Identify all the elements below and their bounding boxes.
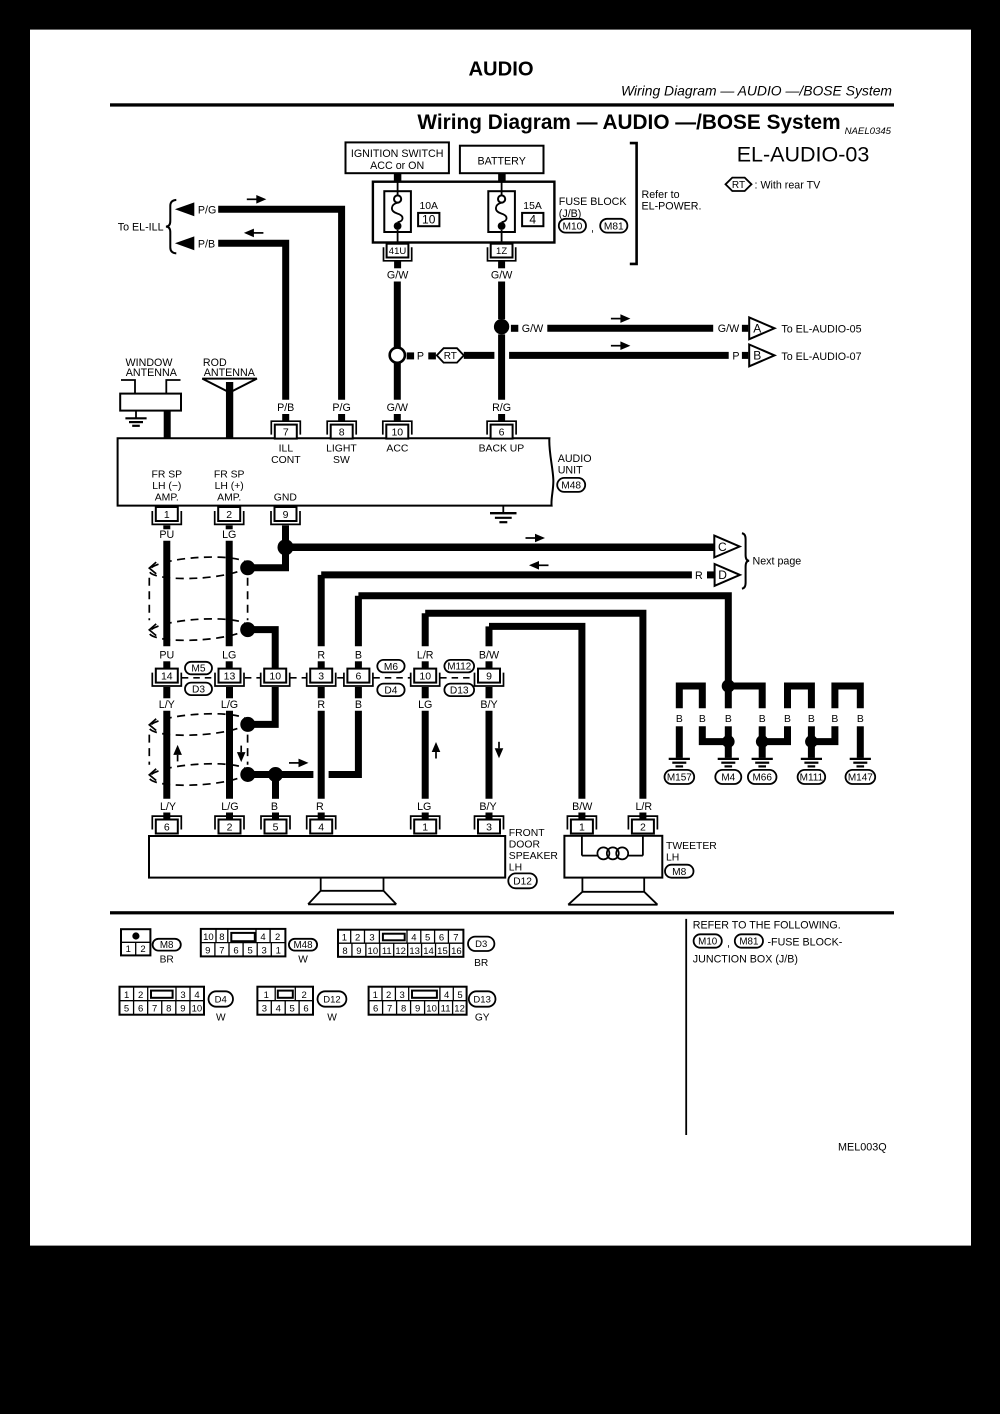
- svg-text:6: 6: [164, 821, 170, 833]
- svg-text:M81: M81: [604, 221, 624, 232]
- svg-text:3: 3: [180, 990, 185, 1001]
- svg-text:BATTERY: BATTERY: [478, 156, 526, 168]
- svg-text:8: 8: [342, 946, 347, 957]
- svg-text:2: 2: [227, 821, 233, 833]
- svg-text:NAEL0345: NAEL0345: [845, 126, 892, 137]
- shielded cable 1 top cap: [149, 554, 249, 581]
- label LG below terminal 2: [226, 525, 233, 529]
- wire B down to terminal 5: [272, 775, 279, 799]
- wire rod antenna to audio unit: [226, 382, 233, 439]
- tweeter horn symbol: [568, 878, 657, 905]
- ground bus top rail 3: [788, 686, 812, 708]
- svg-text:LG: LG: [222, 529, 236, 541]
- flow arrow on G/W branch: [611, 318, 622, 320]
- svg-text:JUNCTION BOX (J/B): JUNCTION BOX (J/B): [693, 954, 798, 966]
- svg-text:PU: PU: [159, 649, 174, 661]
- wire B to ground bus: [358, 596, 728, 686]
- connector M8 oval: [665, 865, 694, 878]
- wire shield 2 drain links: [252, 771, 276, 778]
- terminal 10 LG: [411, 669, 440, 686]
- svg-text:15A: 15A: [523, 201, 542, 212]
- shielded cable 2 top cap: [149, 711, 249, 738]
- svg-text:B: B: [753, 349, 761, 363]
- svg-text:D4: D4: [215, 994, 227, 1005]
- ground bus top rail 1: [679, 686, 702, 708]
- svg-text:BR: BR: [474, 958, 488, 969]
- svg-text:AMP.: AMP.: [217, 493, 241, 504]
- brace next page: [742, 533, 749, 588]
- svg-text:R: R: [317, 699, 325, 711]
- wire window antenna to audio unit: [164, 411, 171, 439]
- svg-text:GY: GY: [475, 1013, 490, 1024]
- svg-text:LH: LH: [666, 852, 679, 863]
- connector table D12: [257, 987, 313, 1015]
- ground symbol M4: [718, 758, 739, 760]
- connector M112 oval: [444, 660, 474, 673]
- ground bus dot main: [722, 679, 735, 692]
- svg-text:4: 4: [411, 933, 416, 944]
- junction dot C wire: [278, 539, 294, 555]
- svg-text:B: B: [784, 714, 791, 725]
- svg-text:Next page: Next page: [753, 556, 802, 568]
- wire L/G vertical: [226, 711, 233, 799]
- wire L/R to tweeter: [425, 613, 643, 799]
- ground bus top rail 2: [728, 686, 762, 708]
- connector D12 oval: [508, 873, 537, 888]
- svg-text:LIGHT: LIGHT: [326, 443, 357, 454]
- svg-text:12: 12: [395, 946, 406, 957]
- svg-text:D12: D12: [513, 877, 532, 888]
- wire P/B: [218, 243, 286, 399]
- ground connector ovals: [665, 770, 695, 784]
- connector M81 oval: [600, 219, 627, 233]
- svg-text:8: 8: [219, 932, 224, 943]
- svg-text:D4: D4: [384, 686, 397, 697]
- wire PU vertical: [163, 541, 170, 647]
- shield 2 drain dot top: [240, 717, 255, 732]
- svg-text:10: 10: [269, 671, 281, 683]
- svg-text:UNIT: UNIT: [558, 464, 583, 476]
- label R below 3: [318, 687, 325, 698]
- svg-text:GND: GND: [274, 493, 297, 504]
- svg-text:1: 1: [422, 821, 428, 833]
- svg-text:1: 1: [164, 509, 170, 521]
- wire ignition to fuse block: [394, 173, 402, 182]
- svg-text:G/W: G/W: [387, 402, 409, 414]
- svg-text:6: 6: [373, 1004, 378, 1015]
- speaker horn symbol: [308, 878, 396, 905]
- svg-text:B: B: [759, 714, 766, 725]
- svg-text:M48: M48: [561, 481, 581, 492]
- svg-text:4: 4: [194, 990, 199, 1001]
- svg-text:-FUSE BLOCK-: -FUSE BLOCK-: [768, 936, 843, 948]
- tweeter box: [564, 836, 662, 878]
- terminal 6 BACK UP: [487, 421, 516, 438]
- wire shield 1 to terminal 10: [252, 630, 276, 669]
- ground symbol M157: [669, 758, 690, 760]
- terminal 7 ILL CONT: [271, 421, 300, 438]
- tweeter terminal 2: [628, 816, 657, 833]
- svg-text:D3: D3: [192, 685, 205, 696]
- wire branch G/W to A: [511, 325, 518, 332]
- wire LG vertical: [226, 541, 233, 647]
- svg-text:1: 1: [579, 821, 585, 833]
- connector D3 table oval: [468, 937, 494, 951]
- wire B/Y vertical lower: [486, 711, 493, 799]
- junction dot G/W: [494, 319, 509, 334]
- wire G/W left vertical upper: [394, 282, 401, 348]
- terminal 9 GND: [271, 507, 300, 524]
- svg-text:R: R: [317, 649, 325, 661]
- svg-text:W: W: [327, 1013, 337, 1024]
- connector table M8: [121, 929, 150, 955]
- svg-text:W: W: [216, 1013, 226, 1024]
- shielded cable 2 side dashes: [148, 735, 150, 765]
- wire stub below 1Z: [498, 261, 505, 269]
- terminal 10 ACC: [383, 421, 412, 438]
- audio unit case ground: [502, 506, 504, 513]
- svg-text:6: 6: [233, 945, 238, 956]
- svg-text:EL-AUDIO-03: EL-AUDIO-03: [737, 143, 870, 167]
- svg-text:10: 10: [192, 1004, 203, 1015]
- svg-text:1: 1: [124, 990, 129, 1001]
- svg-text:M81: M81: [739, 937, 758, 948]
- svg-text:TWEETER: TWEETER: [666, 841, 717, 852]
- svg-text:P/G: P/G: [332, 402, 350, 414]
- svg-text:16: 16: [451, 946, 462, 957]
- svg-text:M6: M6: [384, 662, 398, 673]
- wire LG vertical lower: [422, 711, 429, 799]
- svg-text:R: R: [695, 570, 703, 582]
- svg-text:FR SP: FR SP: [214, 470, 245, 481]
- svg-text:ANTENNA: ANTENNA: [126, 367, 178, 379]
- svg-text:10: 10: [426, 1004, 437, 1015]
- connector table D4: [120, 987, 205, 1015]
- svg-text:3: 3: [399, 990, 404, 1001]
- svg-text:2: 2: [355, 933, 360, 944]
- svg-text:,: ,: [591, 223, 594, 235]
- wire D from next page: [321, 571, 692, 578]
- svg-text:G/W: G/W: [718, 323, 740, 335]
- svg-text:9: 9: [180, 1004, 185, 1015]
- wire L/Y vertical: [163, 711, 170, 799]
- terminal 1 FR SP LH minus: [152, 507, 181, 524]
- svg-text:Wiring Diagram — AUDIO —/BOSE: Wiring Diagram — AUDIO —/BOSE System: [417, 111, 840, 134]
- wire 10 to shield 2: [252, 687, 276, 724]
- svg-text:CONT: CONT: [271, 455, 301, 466]
- label L/G below 13: [226, 687, 233, 698]
- svg-text:A: A: [753, 322, 761, 336]
- window antenna symbol: [121, 380, 135, 394]
- refer M10 oval: [694, 934, 722, 947]
- fuse 15A: [488, 191, 515, 232]
- wire R/G vertical lower: [498, 334, 505, 399]
- svg-text:M5: M5: [191, 664, 205, 675]
- svg-text:4: 4: [444, 990, 449, 1001]
- rod antenna symbol: [202, 379, 257, 393]
- svg-text:B: B: [355, 649, 362, 661]
- svg-text:M112: M112: [447, 662, 471, 673]
- terminal 3 R: [307, 669, 336, 686]
- terminal 2 FR SP LH plus: [215, 507, 244, 524]
- wire P/G: [218, 209, 341, 399]
- svg-text:7: 7: [152, 1004, 157, 1015]
- speaker terminal 1: [411, 816, 440, 833]
- svg-text:11: 11: [382, 946, 392, 957]
- svg-text:5: 5: [457, 990, 462, 1001]
- tweeter terminal 1: [567, 816, 596, 833]
- svg-text:ILL: ILL: [279, 443, 294, 454]
- svg-text:3: 3: [262, 945, 267, 956]
- label LG below 10: [422, 687, 429, 698]
- svg-text:B: B: [725, 714, 732, 725]
- svg-text:2: 2: [302, 990, 307, 1001]
- flow arrow on P branch: [611, 345, 622, 347]
- wire G/W left vertical lower: [394, 363, 401, 400]
- wire R vertical lower: [318, 711, 325, 799]
- svg-text:M4: M4: [721, 773, 735, 784]
- wire branch P with RT: [407, 352, 414, 359]
- svg-text:REFER TO THE FOLLOWING.: REFER TO THE FOLLOWING.: [693, 919, 841, 931]
- wire B/W to tweeter: [489, 626, 582, 798]
- svg-text:: With rear TV: : With rear TV: [755, 179, 822, 191]
- window antenna ground: [135, 411, 137, 418]
- svg-text:LH (+): LH (+): [215, 481, 244, 492]
- flow arrow on D wire: [538, 564, 549, 566]
- svg-text:B: B: [699, 714, 706, 725]
- terminal 6 B: [344, 669, 373, 686]
- wire stub into ACC terminal: [394, 414, 401, 422]
- terminal 8 LIGHT SW: [327, 421, 356, 438]
- arrow to EL-ILL P/G: [175, 202, 194, 216]
- svg-text:D12: D12: [323, 994, 340, 1005]
- battery box: [460, 146, 544, 174]
- svg-text:M157: M157: [667, 773, 692, 784]
- svg-text:EL-POWER.: EL-POWER.: [642, 200, 702, 212]
- svg-text:B/W: B/W: [479, 649, 500, 661]
- connector table D3: [338, 930, 463, 957]
- svg-text:Refer to: Refer to: [642, 189, 680, 201]
- connector table M48: [201, 929, 286, 957]
- connector M48 oval: [557, 478, 585, 492]
- svg-text:FR SP: FR SP: [151, 470, 182, 481]
- svg-text:6: 6: [439, 933, 444, 944]
- svg-text:5: 5: [124, 1004, 129, 1015]
- svg-text:7: 7: [387, 1004, 392, 1015]
- shield 1 drain dot bottom: [240, 622, 255, 637]
- front door speaker box: [149, 836, 505, 878]
- flow arrow down L/G: [240, 746, 242, 753]
- svg-text:7: 7: [283, 427, 289, 439]
- ground bus top rail 4: [835, 686, 860, 708]
- flow arrow on C wire: [526, 537, 537, 539]
- wire B branch horizontal: [279, 771, 313, 778]
- svg-text:B: B: [831, 714, 838, 725]
- svg-text:B: B: [676, 714, 683, 725]
- svg-text:P: P: [417, 351, 424, 363]
- svg-text:5: 5: [247, 945, 252, 956]
- svg-text:3: 3: [318, 671, 324, 683]
- svg-text:8: 8: [166, 1004, 171, 1015]
- svg-text:L/G: L/G: [221, 699, 238, 711]
- svg-text:P/B: P/B: [277, 402, 294, 414]
- svg-text:B: B: [355, 699, 362, 711]
- svg-text:FRONT: FRONT: [509, 828, 545, 839]
- svg-text:9: 9: [486, 671, 492, 683]
- svg-text:LG: LG: [418, 699, 432, 711]
- wire battery to fuse block: [498, 173, 506, 182]
- page connector triangle C: [714, 536, 739, 558]
- svg-text:13: 13: [409, 946, 420, 957]
- svg-text:8: 8: [401, 1004, 406, 1015]
- svg-text:M147: M147: [848, 773, 873, 784]
- svg-text:B: B: [271, 801, 278, 813]
- svg-text:14: 14: [161, 671, 173, 683]
- speaker terminal 5: [261, 816, 290, 833]
- connector D4 oval: [377, 684, 404, 697]
- wire stub into ILL CONT terminal: [282, 414, 289, 422]
- ground symbol M66: [752, 758, 773, 760]
- svg-text:7: 7: [453, 933, 458, 944]
- svg-text:2: 2: [226, 509, 232, 521]
- speaker terminal 4: [307, 816, 336, 833]
- option connector open circle: [390, 348, 405, 363]
- svg-text:1: 1: [126, 944, 131, 955]
- flow arrow on P/B: [253, 232, 264, 234]
- svg-text:R/G: R/G: [492, 402, 511, 414]
- flow arrow up L/Y: [177, 755, 179, 762]
- wire stub into BACK UP terminal: [498, 414, 505, 422]
- svg-text:9: 9: [205, 945, 210, 956]
- svg-text:4: 4: [318, 821, 324, 833]
- svg-text:B: B: [857, 714, 864, 725]
- connector row dashes: [182, 677, 216, 679]
- connector D3 oval: [185, 683, 212, 696]
- speaker terminal 6: [152, 816, 181, 833]
- svg-text:FUSE BLOCK: FUSE BLOCK: [559, 196, 628, 208]
- svg-text:ACC or ON: ACC or ON: [370, 160, 424, 172]
- tweeter coil: [581, 836, 583, 856]
- page connector triangle B: [749, 345, 774, 367]
- connector D12 table oval: [318, 991, 347, 1006]
- svg-text:AMP.: AMP.: [155, 493, 179, 504]
- svg-text:Wiring Diagram — AUDIO —/BOSE: Wiring Diagram — AUDIO —/BOSE System: [621, 83, 892, 99]
- svg-text:2: 2: [275, 932, 280, 943]
- svg-text:4: 4: [260, 932, 265, 943]
- wire GND down to junction: [282, 525, 289, 547]
- svg-text:B/Y: B/Y: [479, 801, 496, 813]
- svg-text:ACC: ACC: [386, 443, 408, 454]
- svg-text:SW: SW: [333, 455, 350, 466]
- svg-text:PU: PU: [159, 529, 174, 541]
- svg-text:6: 6: [499, 427, 505, 439]
- svg-text:13: 13: [224, 671, 236, 683]
- svg-text:3: 3: [369, 933, 374, 944]
- svg-text:11: 11: [441, 1004, 451, 1015]
- svg-text:9: 9: [356, 946, 361, 957]
- svg-text:2: 2: [386, 990, 391, 1001]
- svg-text:L/R: L/R: [417, 649, 434, 661]
- svg-text:L/R: L/R: [635, 801, 652, 813]
- fuse number box 10: [418, 213, 439, 226]
- connector M8 table oval: [153, 939, 181, 951]
- terminal 13 LG: [215, 669, 244, 686]
- svg-text:B/Y: B/Y: [480, 699, 497, 711]
- svg-text:AUDIO: AUDIO: [558, 453, 592, 465]
- terminal 9 BY: [475, 669, 504, 686]
- svg-text:2: 2: [140, 944, 145, 955]
- svg-text:9: 9: [283, 509, 289, 521]
- ground bus legs: [676, 726, 683, 758]
- header rule: [110, 103, 894, 106]
- svg-text:L/Y: L/Y: [160, 801, 176, 813]
- ground symbol M147: [850, 758, 871, 760]
- svg-text:M66: M66: [752, 773, 772, 784]
- connector D13 table oval: [469, 991, 496, 1006]
- refer panel rule: [685, 919, 687, 1135]
- svg-text:D: D: [718, 568, 727, 582]
- svg-text:LH: LH: [509, 862, 522, 873]
- connector table D13: [369, 987, 467, 1015]
- label B/Y below 9: [486, 687, 493, 698]
- svg-text:RT: RT: [444, 351, 457, 362]
- legend RT hexagon: [726, 178, 752, 191]
- svg-text:C: C: [718, 540, 727, 554]
- svg-text:6: 6: [303, 1004, 308, 1015]
- terminal 14 PU: [152, 669, 181, 686]
- terminal 1Z: [488, 247, 516, 260]
- svg-text:D13: D13: [450, 686, 469, 697]
- fuse number box 4: [522, 213, 543, 226]
- svg-text:R: R: [316, 801, 324, 813]
- svg-text:1Z: 1Z: [496, 246, 507, 257]
- svg-text:B/W: B/W: [572, 801, 593, 813]
- svg-text:IGNITION SWITCH: IGNITION SWITCH: [351, 148, 444, 160]
- svg-text:MEL003Q: MEL003Q: [838, 1141, 887, 1153]
- svg-text:G/W: G/W: [491, 269, 513, 281]
- arrow to EL-ILL P/B: [175, 236, 194, 250]
- svg-text:L/G: L/G: [221, 801, 238, 813]
- svg-text:DOOR: DOOR: [509, 839, 541, 850]
- svg-text:M10: M10: [698, 937, 718, 948]
- svg-text:P/B: P/B: [198, 238, 215, 250]
- svg-text:AUDIO: AUDIO: [468, 59, 533, 81]
- connector M10 oval: [559, 219, 586, 233]
- option hexagon RT: [437, 348, 464, 362]
- fuse block box: [373, 182, 555, 243]
- label PU below terminal 1: [163, 525, 170, 529]
- ground bus dots: [722, 735, 735, 748]
- svg-text:M10: M10: [562, 221, 582, 232]
- svg-text:1: 1: [373, 990, 378, 1001]
- svg-text:M8: M8: [160, 940, 174, 951]
- svg-text:BR: BR: [160, 955, 174, 966]
- svg-text:9: 9: [415, 1004, 420, 1015]
- label L/Y below 14: [163, 687, 170, 698]
- svg-text:To EL-ILL: To EL-ILL: [118, 221, 164, 233]
- flow arrow right on B branch: [289, 762, 300, 764]
- svg-text:10: 10: [422, 213, 436, 227]
- svg-text:D3: D3: [475, 939, 487, 950]
- wire junction to shield 1: [252, 551, 286, 568]
- label B below 6: [355, 687, 362, 698]
- svg-text:5: 5: [290, 1004, 295, 1015]
- svg-text:6: 6: [138, 1004, 143, 1015]
- wire G/W right vertical upper: [498, 282, 505, 320]
- svg-text:4: 4: [276, 1004, 281, 1015]
- svg-text:10A: 10A: [420, 201, 439, 212]
- junction dot B branch: [268, 767, 283, 782]
